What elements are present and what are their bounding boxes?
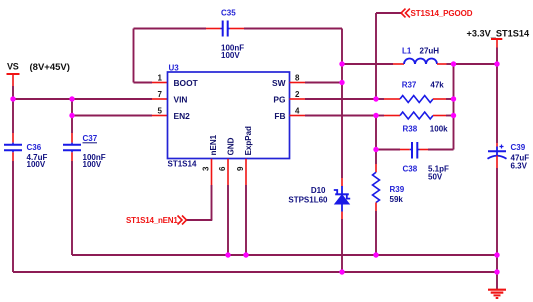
pin 4 stub FB [290,115,306,117]
svg-text:L1: L1 [402,47,412,56]
svg-text:U3: U3 [169,64,180,73]
capacitor C36 pin top [12,133,14,143]
wire ground rail upper [72,254,497,256]
diode D10 top lead [341,178,343,187]
svg-text:47k: 47k [430,80,444,89]
capacitor C35 pin left [206,28,221,30]
ground [488,290,506,298]
svg-text:GND: GND [227,137,236,155]
resistor R39 [373,172,405,204]
node rail lower ground [494,269,499,274]
wire D10 to lower ground rail [341,219,343,272]
inductor L1 [402,47,439,65]
wire BOOT row [134,82,153,84]
capacitor C37 pin bottom [71,150,73,152]
capacitor C36 [4,143,48,169]
wire ExpPad down [245,185,247,255]
wire 3.3V rail [496,48,498,144]
node R37 right [451,96,456,101]
node R38 right [451,113,456,118]
resistor R38 right lead [433,115,446,117]
svg-text:ST1S14_nEN1: ST1S14_nEN1 [126,216,178,225]
pin 6 stub GND [227,159,229,185]
svg-text:C36: C36 [27,143,42,152]
svg-text:R39: R39 [390,185,405,194]
capacitor C39 bottom lead [496,156,498,169]
node ExpPad rail [243,252,248,257]
svg-text:27uH: 27uH [420,47,440,56]
wire VS stub down to VIN row [12,86,14,99]
node C37/VIN [69,96,74,101]
svg-text:100k: 100k [430,124,448,133]
wire R39 to ground rail [375,211,377,255]
inductor L1 right lead [437,63,447,65]
svg-text:FB: FB [274,111,285,121]
svg-text:VIN: VIN [174,95,188,105]
wire L1 to rail [454,63,498,65]
pin 7 stub [152,98,168,100]
pin 9 stub ExpPad [245,159,247,185]
wire FB vertical to R39 [375,116,377,165]
svg-text:BOOT: BOOT [174,78,199,88]
node rail upper ground [494,252,499,257]
wire SW row [305,82,342,84]
pin 2 stub PG [290,98,306,100]
diode D10 bottom lead [341,212,343,220]
resistor R39 top lead [375,164,377,172]
svg-text:D10: D10 [311,186,326,195]
power symbol +3.3V_ST1S14 [467,29,530,48]
svg-text:1: 1 [158,73,163,82]
pin 3 stub nEN1 [211,159,213,185]
svg-text:C39: C39 [511,143,526,152]
node SW [339,80,344,85]
svg-text:C37: C37 [83,134,98,143]
svg-text:8: 8 [295,73,300,82]
ic U3 body [168,64,290,169]
svg-text:4: 4 [295,106,300,115]
diode D10 [288,186,350,212]
capacitor C39 polarized [488,143,530,171]
svg-text:ST1S14_PGOOD: ST1S14_PGOOD [411,9,473,18]
capacitor C38 left lead [376,149,400,151]
node EN2 [69,113,74,118]
svg-text:6: 6 [218,166,227,171]
node PG [373,96,378,101]
svg-text:2: 2 [295,90,300,99]
svg-text:9: 9 [236,166,245,171]
inductor L1 leads [342,63,393,65]
wire right vertical x453 [453,64,455,150]
wire GND down [227,185,229,255]
capacitor C39 top lead [496,143,498,147]
wire boot loop top right [244,28,342,30]
node GND pin rail [225,252,230,257]
svg-text:ST1S14: ST1S14 [168,160,197,169]
wire PGOOD vertical [375,13,377,99]
wire EN2 row [72,115,152,117]
svg-text:100V: 100V [221,51,240,60]
svg-text:ExpPad: ExpPad [244,126,253,155]
wire nEN1 down [211,185,213,220]
capacitor C38 right lead [417,149,419,151]
svg-text:59k: 59k [390,195,404,204]
svg-text:5: 5 [158,106,163,115]
node boot/SW top [339,61,344,66]
svg-text:7: 7 [158,90,163,99]
capacitor C37 pin top [71,133,73,143]
capacitor C37 [63,134,106,169]
wire VIN row [13,98,152,100]
wire vertical x342 top [341,29,343,179]
svg-text:50V: 50V [428,173,443,182]
wire PG row [305,98,376,100]
node FB [373,113,378,118]
wire vertical x72 lower [71,161,73,255]
wire boot loop top left [134,28,207,30]
pin 1 stub [152,82,168,84]
wire ground rail lower [13,271,497,273]
capacitor C35 pin right [228,28,230,30]
wire nEN1 horizontal [187,219,213,221]
wire boot loop left vertical [133,29,135,83]
port ST1S14_nEN1 [126,216,187,226]
wire rail to ground [496,168,498,289]
capacitor C36 pin bottom [12,150,14,152]
resistor R38 leads [376,115,384,117]
wire PGOOD horizontal [376,12,401,14]
node VS/VIN [10,96,15,101]
resistor R39 bottom lead [375,203,377,212]
svg-text:C38: C38 [403,164,418,173]
node rail top [494,61,499,66]
svg-text:100V: 100V [83,160,102,169]
node C38 left [373,147,378,152]
svg-text:+3.3V_ST1S14: +3.3V_ST1S14 [467,29,530,39]
wire left vertical x13 lower [12,161,14,272]
svg-text:R38: R38 [403,124,418,133]
port ST1S14_PGOOD [401,9,473,18]
svg-text:nEN1: nEN1 [209,134,218,155]
wire left vertical x13 [12,99,14,133]
power symbol VS [7,62,20,87]
capacitor C35 [221,9,244,61]
svg-text:(8V+45V): (8V+45V) [30,62,70,73]
resistor R37 leads [376,98,384,100]
resistor R37 right lead [433,98,446,100]
node L1 out [451,61,456,66]
wire C38 to vertical [428,149,454,151]
pin 8 stub SW [290,82,306,84]
resistor R37 [400,80,444,102]
svg-text:STPS1L60: STPS1L60 [288,196,328,205]
svg-text:EN2: EN2 [174,111,191,121]
svg-text:PG: PG [273,95,285,105]
svg-text:C35: C35 [221,9,236,18]
svg-text:3: 3 [202,166,211,171]
wire FB row [305,115,376,117]
wire vertical x72 upper [71,99,73,133]
svg-text:6.3V: 6.3V [511,162,528,171]
svg-text:100V: 100V [27,160,46,169]
svg-text:R37: R37 [402,80,417,89]
resistor R38 [400,112,448,133]
svg-text:SW: SW [272,78,286,88]
svg-text:VS: VS [7,62,19,72]
node D10 ground [339,269,344,274]
capacitor C38 [403,142,450,182]
node R39 ground [373,252,378,257]
pin 5 stub [152,115,168,117]
